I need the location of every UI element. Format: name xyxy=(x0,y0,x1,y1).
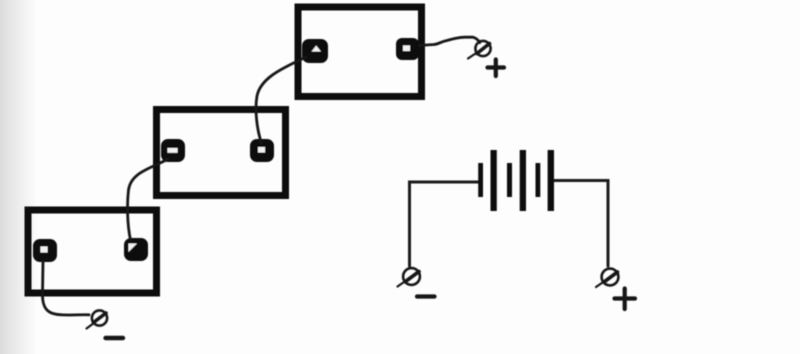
schematic battery symbol: cell plate short 3 xyxy=(536,163,541,197)
battery B2 left terminal clip xyxy=(161,139,185,162)
plus label at positive lead xyxy=(488,60,505,77)
wire B3 left terminal to negative lead clip xyxy=(43,261,90,315)
battery B3 left terminal clip xyxy=(33,239,57,262)
wire B2 left terminal to B3 right terminal xyxy=(128,159,168,240)
schematic battery symbol: cell plate long 1 xyxy=(491,150,497,211)
wire B1 right terminal to positive lead clip xyxy=(419,37,480,45)
battery B2 right terminal clip xyxy=(250,139,274,162)
schematic battery symbol: cell plate short 2 xyxy=(507,163,512,197)
schematic: left wire from battery symbol xyxy=(410,182,479,266)
schematic positive terminal clip xyxy=(596,269,618,287)
battery B1 left terminal clip xyxy=(302,39,328,63)
positive lead clip (top right) xyxy=(468,41,491,59)
battery B3 box (bottom) xyxy=(28,210,157,293)
battery B3 right terminal clip xyxy=(124,238,148,261)
battery B2 box (middle) xyxy=(157,110,286,196)
schematic negative terminal clip xyxy=(398,268,420,286)
schematic battery symbol: cell plate long 2 xyxy=(520,150,526,211)
schematic battery symbol: cell plate short 1 xyxy=(478,163,483,197)
schematic minus label xyxy=(417,294,435,298)
battery B1 box (top) xyxy=(298,7,422,97)
minus label at negative lead xyxy=(106,336,124,340)
schematic plus label xyxy=(615,289,636,310)
negative lead clip (bottom left) xyxy=(87,310,108,328)
wire B1 left terminal to B2 right terminal xyxy=(256,57,306,143)
schematic: right wire from battery symbol xyxy=(554,181,608,267)
schematic battery symbol: cell plate long 3 xyxy=(548,150,554,211)
battery B1 right terminal clip xyxy=(396,38,419,60)
